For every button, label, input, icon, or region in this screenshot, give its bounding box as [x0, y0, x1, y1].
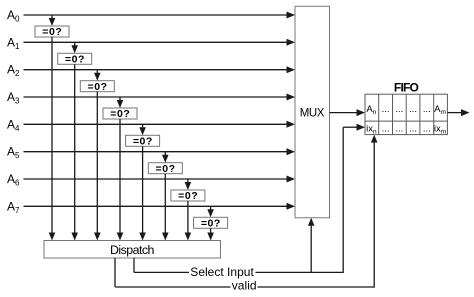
wire C2 to Dispatch	[94, 92, 101, 241]
wire C0 to Dispatch	[49, 37, 56, 241]
node A0 input label	[7, 8, 20, 24]
svg-text:MUX: MUX	[300, 108, 325, 120]
svg-text:=0?: =0?	[156, 163, 176, 175]
svg-text:=0?: =0?	[65, 54, 85, 66]
node A7 input label	[7, 199, 20, 215]
node A4 input label	[7, 117, 20, 133]
wire A5 to MUX input	[24, 148, 296, 155]
block MUX	[295, 6, 330, 218]
FIFO top row ellipsis cell 2	[382, 104, 390, 115]
wire A6 to MUX input	[24, 176, 296, 183]
node A5 input label	[7, 145, 20, 161]
FIFO cell An (top-left)	[366, 104, 376, 116]
svg-text:...: ...	[382, 104, 390, 115]
label FIFO	[394, 80, 419, 94]
comparator C1 "=0?"	[58, 53, 92, 65]
wire A1 tap down to comparator C1	[71, 42, 78, 53]
svg-text:=0?: =0?	[133, 136, 153, 148]
wire A0 tap down to comparator C0	[49, 15, 56, 26]
svg-text:=0?: =0?	[42, 26, 62, 38]
node A1 input label	[7, 35, 20, 51]
FIFO cell ixm (bottom-right)	[434, 123, 446, 135]
FIFO bottom row ellipsis cell 3	[395, 123, 403, 134]
FIFO bottom row ellipsis cell 5	[423, 123, 431, 134]
wire Select Input branch up to MUX select pin	[308, 218, 315, 273]
node A6 input label	[7, 172, 20, 188]
wire A4 to MUX input	[24, 121, 296, 128]
svg-text:=0?: =0?	[110, 108, 130, 120]
svg-text:...: ...	[423, 123, 431, 134]
FIFO cell Am (top-right)	[434, 104, 446, 116]
svg-text:...: ...	[409, 123, 417, 134]
label Select Input	[190, 265, 254, 279]
FIFO top row ellipsis cell 3	[395, 104, 403, 115]
wire FIFO output	[447, 109, 469, 116]
wire C6 to Dispatch	[185, 201, 192, 241]
comparator C7 "=0?"	[194, 217, 228, 229]
FIFO bottom row ellipsis cell 4	[409, 123, 417, 134]
svg-text:=0?: =0?	[178, 190, 198, 202]
comparator C6 "=0?"	[171, 190, 205, 202]
wire Select Input from Dispatch to MUX select and FIFO index input	[134, 124, 365, 273]
wire A2 to MUX input	[24, 66, 296, 73]
wire A2 tap down to comparator C2	[94, 70, 101, 81]
node A3 input label	[7, 90, 20, 106]
svg-text:=0?: =0?	[201, 218, 221, 230]
FIFO cell ixn (bottom-left)	[366, 123, 377, 135]
wire A1 to MUX input	[24, 39, 296, 46]
wire A6 tap down to comparator C6	[185, 179, 192, 190]
svg-text:...: ...	[395, 123, 403, 134]
wire C5 to Dispatch	[162, 174, 169, 241]
svg-text:=0?: =0?	[88, 81, 108, 93]
svg-text:Dispatch: Dispatch	[110, 243, 155, 257]
wire C3 to Dispatch	[117, 119, 124, 241]
comparator C4 "=0?"	[126, 135, 160, 147]
svg-text:...: ...	[382, 123, 390, 134]
wire A3 to MUX input	[24, 94, 296, 101]
comparator C2 "=0?"	[80, 81, 114, 93]
wire A7 to MUX input	[24, 203, 296, 210]
comparator C5 "=0?"	[148, 163, 182, 175]
wire A3 tap down to comparator C3	[117, 97, 124, 108]
FIFO top row ellipsis cell 4	[409, 104, 417, 115]
wire C4 to Dispatch	[139, 146, 146, 240]
node A2 input label	[7, 63, 20, 79]
svg-text:valid: valid	[232, 279, 257, 293]
svg-text:FIFO: FIFO	[394, 80, 419, 94]
wire C7 to Dispatch	[207, 228, 214, 240]
block Dispatch	[44, 241, 221, 259]
wire C1 to Dispatch	[71, 64, 78, 240]
svg-text:Select Input: Select Input	[190, 265, 254, 279]
block FIFO (2x6 cells)	[365, 94, 447, 134]
FIFO top row ellipsis cell 5	[423, 104, 431, 115]
wire A7 tap down to comparator C7	[207, 206, 214, 217]
wire A4 tap down to comparator C4	[139, 124, 146, 135]
comparator C0 "=0?"	[35, 26, 69, 38]
wire valid from Dispatch to FIFO write enable	[115, 135, 378, 288]
wire MUX output to FIFO data input	[330, 109, 366, 116]
svg-text:...: ...	[395, 104, 403, 115]
svg-text:...: ...	[409, 104, 417, 115]
svg-text:...: ...	[423, 104, 431, 115]
comparator C3 "=0?"	[103, 108, 137, 120]
label valid	[232, 279, 257, 293]
wire A0 to MUX input	[24, 12, 296, 19]
wire A5 tap down to comparator C5	[162, 152, 169, 163]
FIFO bottom row ellipsis cell 2	[382, 123, 390, 134]
